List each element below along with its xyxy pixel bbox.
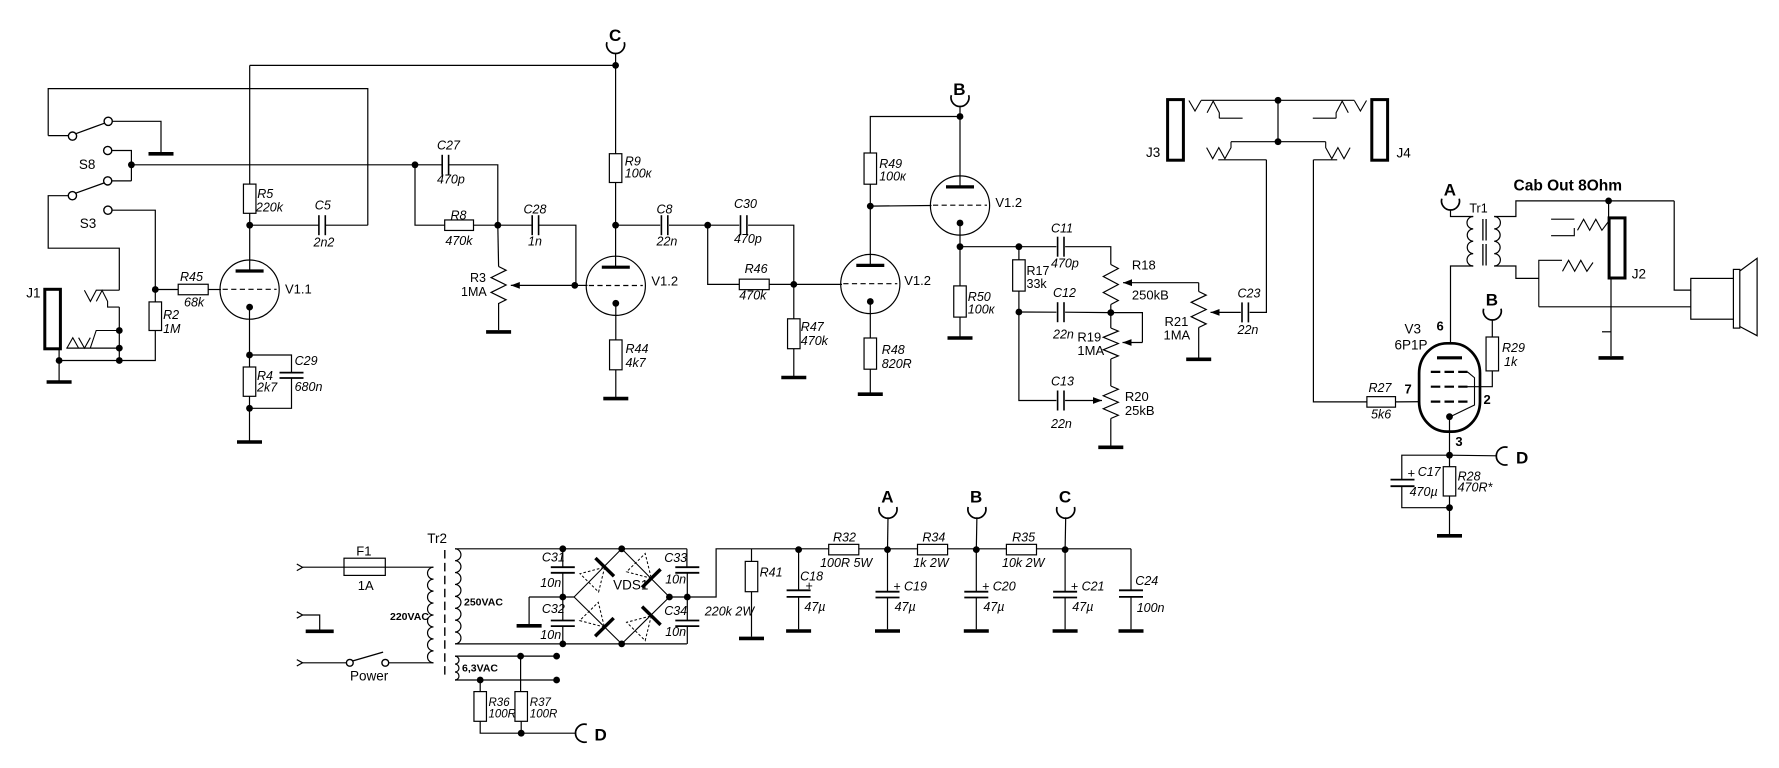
svg-text:V1.2: V1.2 <box>995 195 1022 210</box>
wire Tr1 sec bottom <box>1494 266 1539 278</box>
wire Tr1 sec top to cab <box>1494 201 1674 217</box>
svg-text:6P1P: 6P1P <box>1395 338 1428 353</box>
ground at S8 <box>149 152 174 156</box>
ground under R3 <box>486 330 511 334</box>
wire R17 body lead <box>1018 247 1020 260</box>
svg-text:100к: 100к <box>625 167 653 181</box>
svg-text:C34: C34 <box>664 604 687 618</box>
svg-text:C: C <box>609 26 621 45</box>
wire C19 top lead <box>887 550 889 592</box>
svg-text:R20: R20 <box>1125 389 1149 404</box>
svg-text:100n: 100n <box>1137 601 1165 615</box>
svg-text:10n: 10n <box>665 573 686 587</box>
wire cathode3 bus <box>960 246 1056 248</box>
wire C18 top lead <box>798 550 800 591</box>
svg-text:J3: J3 <box>1146 145 1160 160</box>
jack J2 ring stub <box>1602 331 1611 333</box>
wire switch bus y=164.8 <box>131 164 415 166</box>
jack J2 tip contact <box>1551 218 1574 220</box>
wire C5 right <box>325 224 368 226</box>
wire C19 bottom lead <box>887 598 889 630</box>
svg-text:Cab Out 8Ohm: Cab Out 8Ohm <box>1514 178 1623 195</box>
switch Power pole <box>346 659 353 666</box>
transformer Tr2 heater 6.3VAC <box>455 656 459 680</box>
svg-text:250kB: 250kB <box>1132 288 1169 303</box>
svg-text:R41: R41 <box>760 566 783 580</box>
wire J3 tip foot <box>1219 117 1242 119</box>
wire C8 right <box>669 224 708 226</box>
capacitor C8 <box>661 215 667 235</box>
svg-text:4k7: 4k7 <box>626 356 647 370</box>
svg-text:R8: R8 <box>451 209 467 223</box>
capacitor C5 <box>319 215 325 235</box>
capacitor C31 <box>551 567 575 573</box>
node C32 bottom <box>559 641 566 648</box>
node R18-R19 <box>1107 309 1114 316</box>
node D bottom connector <box>575 724 586 742</box>
terminal heater top <box>553 653 560 660</box>
svg-text:470p: 470p <box>437 173 465 187</box>
svg-text:B: B <box>1486 291 1498 310</box>
wire speaker bottom feed <box>1539 306 1691 308</box>
switch S8 throw 2a contact <box>104 146 112 154</box>
ground under C24 <box>1119 629 1144 633</box>
node C31 top <box>559 545 566 552</box>
wire node C stub <box>615 54 617 66</box>
node A bottom connector <box>879 507 897 518</box>
capacitor C12 <box>1058 302 1064 322</box>
node C31-C32 mid <box>559 594 566 601</box>
jack J3 body <box>1168 100 1184 161</box>
node B bottom connector <box>968 507 986 518</box>
svg-text:C31: C31 <box>542 551 565 565</box>
svg-text:R37: R37 <box>530 697 552 709</box>
svg-text:1MA: 1MA <box>1164 328 1191 343</box>
svg-text:47µ: 47µ <box>983 600 1004 614</box>
capacitor C24 <box>1119 590 1143 597</box>
wire S8 loop top y=88.6 <box>48 89 368 226</box>
wire R29 to screen grid <box>1468 371 1493 387</box>
node C bottom connector <box>1057 507 1075 518</box>
svg-text:1MA: 1MA <box>1077 343 1104 358</box>
wire J1 ring foot <box>66 347 119 349</box>
svg-text:10n: 10n <box>540 576 561 590</box>
wire R49 top to B <box>870 117 960 154</box>
triode V1.1 <box>220 260 279 319</box>
wire R2 top lead <box>154 290 156 302</box>
wire R37 top lead <box>520 656 522 692</box>
potentiometer R19 body <box>1103 328 1118 359</box>
wire C5 left <box>250 224 319 226</box>
transformer Tr1 secondary <box>1494 217 1500 267</box>
resistor R35 <box>1006 544 1036 555</box>
svg-text:7: 7 <box>1405 382 1412 397</box>
wire grid3 link <box>870 205 931 208</box>
speaker body <box>1691 278 1734 319</box>
svg-text:A: A <box>881 488 893 507</box>
wire R36 top lead <box>479 680 481 692</box>
wire to node D <box>1450 454 1498 457</box>
ground bridge minus <box>517 624 542 628</box>
node J2 tip <box>1605 198 1612 205</box>
wire Tr1 primary bottom to plate <box>1451 266 1474 358</box>
svg-text:Power: Power <box>350 669 389 684</box>
transformer Tr2 primary <box>428 567 434 663</box>
potentiometer R21 body <box>1191 292 1206 328</box>
wire R19 top lead <box>1110 313 1112 328</box>
wire mains N to switch <box>303 662 347 664</box>
wire J3 ring foot to C23 <box>1218 159 1266 161</box>
wire C17 bottom <box>1402 486 1450 507</box>
wire C32 top lead <box>562 597 564 620</box>
wire J4 to R27 riser <box>1313 160 1367 402</box>
svg-text:470µ: 470µ <box>1410 485 1438 499</box>
svg-text:100к: 100к <box>968 303 996 317</box>
svg-text:470k: 470k <box>801 334 829 348</box>
switch S8 throw 2b contact <box>104 177 112 185</box>
wire gnd riser mid <box>528 597 530 625</box>
wire A to Tr1 primary <box>1451 210 1474 217</box>
svg-text:22n: 22n <box>1052 328 1074 342</box>
node R45-R2-S3 <box>152 286 159 293</box>
svg-text:J4: J4 <box>1397 146 1412 161</box>
resistor R8 <box>445 220 474 231</box>
wire J3 tip line to bus <box>1201 99 1278 101</box>
switch S8 pole 1 contact <box>68 132 76 140</box>
svg-text:220k: 220k <box>255 201 284 215</box>
wire C34 bottom lead <box>686 626 688 644</box>
svg-text:C17: C17 <box>1418 465 1442 479</box>
wire R19 wiper feed <box>1111 313 1143 343</box>
svg-text:R34: R34 <box>922 531 945 545</box>
resistor R29 <box>1486 337 1499 371</box>
capacitor C30 <box>741 215 747 235</box>
svg-text:R46: R46 <box>745 262 768 276</box>
capacitor C13 <box>1058 391 1064 411</box>
wire to V1.2b grid <box>794 283 842 285</box>
node heater bottom R36 <box>477 677 484 684</box>
wire R47 top lead <box>793 284 795 318</box>
potentiometer R18 body <box>1103 265 1118 305</box>
resistor R37 <box>515 692 528 722</box>
wire C20 top lead <box>975 550 977 592</box>
svg-text:22n: 22n <box>1237 323 1259 337</box>
pentode V3 grid rows <box>1431 371 1468 373</box>
svg-text:1n: 1n <box>528 235 542 249</box>
svg-text:+: + <box>806 579 813 593</box>
resistor R46 <box>739 279 769 290</box>
wire bridge output <box>669 549 1131 597</box>
switch S3 contact <box>104 206 112 214</box>
wire R17 bottom lead <box>1018 291 1020 312</box>
pentode V3 cathode <box>1446 413 1453 420</box>
potentiometer R19 wiper <box>1123 342 1143 344</box>
svg-text:C29: C29 <box>295 354 318 368</box>
resistor R47 <box>788 319 801 349</box>
junction J1 sleeve <box>56 357 63 364</box>
wire A lead <box>887 517 890 549</box>
wire R36 bottom <box>480 721 521 733</box>
svg-text:1k: 1k <box>1504 355 1518 369</box>
wire C28 right to grid node <box>539 225 576 285</box>
svg-text:C33: C33 <box>664 551 687 565</box>
svg-text:S8: S8 <box>79 157 96 172</box>
resistor R34 <box>918 544 948 555</box>
wire V1.2a cathode lead <box>615 303 617 340</box>
ground under R21 <box>1186 357 1211 361</box>
jack J4 ring spring <box>1326 142 1350 159</box>
junction J1 col c <box>116 357 123 364</box>
svg-text:22n: 22n <box>1050 417 1072 431</box>
svg-text:C27: C27 <box>437 139 461 153</box>
svg-text:R44: R44 <box>626 342 649 356</box>
svg-text:Tr2: Tr2 <box>427 531 447 546</box>
node bridge bottom <box>618 641 625 648</box>
wire V3 cathode lead <box>1449 417 1451 456</box>
mains input chevron N <box>297 660 303 666</box>
wire heater bottom <box>455 679 557 681</box>
ground mains earth <box>306 629 334 633</box>
wire C21 top lead <box>1064 550 1066 592</box>
capacitor C28 <box>532 215 538 235</box>
wire C-column through crossings <box>249 65 251 184</box>
capacitor C17 plates <box>1391 480 1415 487</box>
capacitor C21 <box>1053 592 1077 598</box>
wire jack bus link <box>1277 100 1279 141</box>
wire C12 right <box>1065 311 1111 313</box>
svg-text:1MA: 1MA <box>461 285 487 299</box>
jack J2 ring contact <box>1539 260 1562 307</box>
jack J3 tip spring <box>1189 101 1201 112</box>
triode V1.2 second <box>841 254 900 313</box>
svg-text:C8: C8 <box>657 203 673 217</box>
wire switch to Tr2 primary <box>389 662 434 664</box>
svg-text:V1.2: V1.2 <box>651 274 678 289</box>
wire J4 ring foot to R27 <box>1313 159 1337 161</box>
svg-text:R18: R18 <box>1132 258 1156 273</box>
resistor R45 <box>178 284 208 295</box>
wire V1.1 cathode lead <box>249 307 251 355</box>
wire C29 top branch <box>250 355 292 373</box>
wire R19-R20 link <box>1110 359 1112 386</box>
ground under J2 <box>1599 356 1624 360</box>
diode VDS1 upper-left <box>580 567 605 592</box>
wire S8 throw2b stub <box>112 180 131 182</box>
resistor R41 <box>745 561 758 591</box>
node R17-C12-C13 <box>1016 309 1023 316</box>
node D connector <box>1496 447 1507 465</box>
wire R45 left lead <box>155 289 178 291</box>
wire heater top <box>455 655 557 657</box>
svg-text:C28: C28 <box>524 203 547 217</box>
mains earth chevron <box>297 612 303 618</box>
svg-text:V1.2: V1.2 <box>904 273 931 288</box>
transformer Tr1 core <box>1482 219 1484 241</box>
diode VDS1 lower-right <box>627 616 652 641</box>
svg-text:V1.1: V1.1 <box>285 282 312 297</box>
svg-text:R5: R5 <box>257 187 273 201</box>
wire J4 ring line <box>1278 141 1326 143</box>
capacitor C32 <box>551 621 575 627</box>
resistor R48 <box>864 338 877 369</box>
wire J1 tip foot riser <box>118 307 120 360</box>
node B rail <box>973 546 980 553</box>
speaker frame <box>1733 269 1739 328</box>
switch S8 throw 1 contact <box>104 117 112 125</box>
svg-text:R48: R48 <box>882 343 905 357</box>
speaker horn <box>1740 258 1757 335</box>
wire S8 pole1 stub <box>48 135 68 137</box>
svg-text:33k: 33k <box>1027 277 1048 291</box>
wire V1.2b plate riser <box>869 184 871 265</box>
wire S8 throw2a stub <box>112 151 131 181</box>
mains input chevron L <box>297 564 303 571</box>
junction S8 line <box>128 161 135 168</box>
node C rail <box>1062 546 1069 553</box>
wire bridge mid gnd <box>529 596 574 598</box>
wire C27 left <box>415 164 442 166</box>
capacitor C34 <box>675 621 699 627</box>
node C18 <box>795 546 802 553</box>
svg-text:1A: 1A <box>358 578 374 593</box>
ground under R20 <box>1098 445 1123 449</box>
capacitor C19 <box>876 592 900 598</box>
wire C30 left <box>708 224 740 226</box>
node humdinger D <box>518 730 525 737</box>
capacitor C29 <box>280 373 304 378</box>
resistor R36 <box>474 692 487 722</box>
resistor R27 <box>1367 397 1396 408</box>
wire R41 bottom lead <box>751 592 753 637</box>
svg-text:D: D <box>595 726 607 745</box>
node jack bus top <box>1275 97 1282 104</box>
resistor R2 <box>149 302 162 331</box>
capacitor C33 <box>675 567 699 573</box>
wire J1 tip contact line <box>96 289 120 291</box>
node V1.1 cathode-R4 <box>246 352 253 359</box>
svg-text:C12: C12 <box>1053 286 1076 300</box>
wire S3 to R45 node <box>112 210 155 289</box>
wire C lead <box>1064 517 1067 549</box>
node A rail <box>884 546 891 553</box>
svg-text:C: C <box>1059 488 1071 507</box>
jack J1 tip contact spring <box>84 290 96 301</box>
switch S8 pole 2 contact <box>68 192 76 200</box>
svg-text:1M: 1M <box>163 322 181 336</box>
wire R18 bottom lead <box>1110 305 1112 313</box>
wire R47 bottom lead <box>793 349 795 376</box>
svg-text:250VAC: 250VAC <box>464 597 503 609</box>
svg-text:S3: S3 <box>80 216 97 231</box>
svg-text:470p: 470p <box>1051 257 1079 271</box>
wire C12 left <box>1019 311 1057 313</box>
wire R3 top lead <box>497 225 500 266</box>
svg-text:R2: R2 <box>163 308 179 322</box>
potentiometer R3 wiper <box>511 284 576 286</box>
wire node C riser to R9 <box>615 65 617 153</box>
svg-text:3: 3 <box>1455 434 1462 449</box>
svg-text:C5: C5 <box>315 199 331 213</box>
ground under C20 <box>964 629 989 633</box>
triode V1.2 third <box>930 176 989 235</box>
wire R46 right lead <box>769 283 794 285</box>
wire C24 feed <box>1130 549 1132 591</box>
wire V1.2c cathode lead <box>959 224 961 286</box>
node B junction <box>957 113 964 120</box>
svg-text:100R 5W: 100R 5W <box>820 556 873 570</box>
svg-text:F1: F1 <box>356 544 371 559</box>
wire R18 wiper to R21 <box>1198 283 1200 292</box>
capacitor C23 <box>1242 302 1248 322</box>
junction J1 col b <box>116 345 123 352</box>
svg-text:R32: R32 <box>833 531 856 545</box>
node R5-C5-plate <box>246 222 253 229</box>
wire C33 bottom lead <box>686 573 688 597</box>
wire HT bottom rail <box>455 643 687 645</box>
svg-text:100R: 100R <box>530 709 558 721</box>
wire R21 bottom lead <box>1198 328 1200 359</box>
wire C24 bottom lead <box>1130 597 1132 629</box>
node cathode3-R50 <box>957 243 964 250</box>
svg-text:R27: R27 <box>1369 381 1393 395</box>
pentode V3 beam plate link <box>1452 372 1475 416</box>
wire C17 branch <box>1402 455 1450 479</box>
wire mains L to fuse <box>303 566 344 568</box>
node cathode-D <box>1446 452 1453 459</box>
svg-text:220k 2W: 220k 2W <box>704 605 756 619</box>
node R17 top <box>1016 243 1023 250</box>
switch Power throw <box>382 659 389 666</box>
svg-text:2: 2 <box>1484 392 1491 407</box>
potentiometer R21 wiper <box>1211 311 1241 313</box>
wire R28 bottom lead <box>1449 496 1451 534</box>
node R8-C28-R3 <box>494 222 501 229</box>
wire R41 top lead <box>751 549 753 562</box>
svg-text:2k7: 2k7 <box>256 381 278 395</box>
svg-text:Tr1: Tr1 <box>1469 202 1487 216</box>
svg-text:R45: R45 <box>180 270 203 284</box>
fuse F1 <box>344 566 385 568</box>
pentode V3 envelope <box>1419 343 1480 431</box>
svg-text:C13: C13 <box>1051 375 1074 389</box>
resistor R44 <box>610 340 623 370</box>
node heater top R37 <box>517 653 524 660</box>
capacitor C27 <box>442 155 448 175</box>
wire C8 left <box>616 224 661 226</box>
resistor R32 <box>829 544 859 555</box>
node C33-C34 mid <box>684 594 691 601</box>
wire R4 top lead <box>249 355 251 367</box>
switch S8 lever 1 <box>76 123 105 134</box>
diode VDS1 upper-right <box>627 554 652 579</box>
wire C13 feed <box>1019 312 1057 401</box>
resistor R28 <box>1443 467 1456 496</box>
node bridge plus <box>666 594 673 601</box>
ground under R47 <box>781 376 806 380</box>
pentode V3 plate <box>1437 356 1462 359</box>
svg-text:10n: 10n <box>540 628 561 642</box>
svg-text:5k6: 5k6 <box>1371 408 1391 422</box>
wire R3 bottom lead <box>498 303 500 330</box>
wire R27 to grid <box>1396 401 1431 403</box>
svg-text:68k: 68k <box>184 296 205 310</box>
node C8-C30-R46 <box>704 222 711 229</box>
svg-text:1k 2W: 1k 2W <box>913 556 950 570</box>
svg-text:6: 6 <box>1437 319 1444 334</box>
node R46-R47-grid <box>790 281 797 288</box>
transformer Tr2 core <box>444 550 446 678</box>
wire R20 bottom lead <box>1110 419 1112 447</box>
